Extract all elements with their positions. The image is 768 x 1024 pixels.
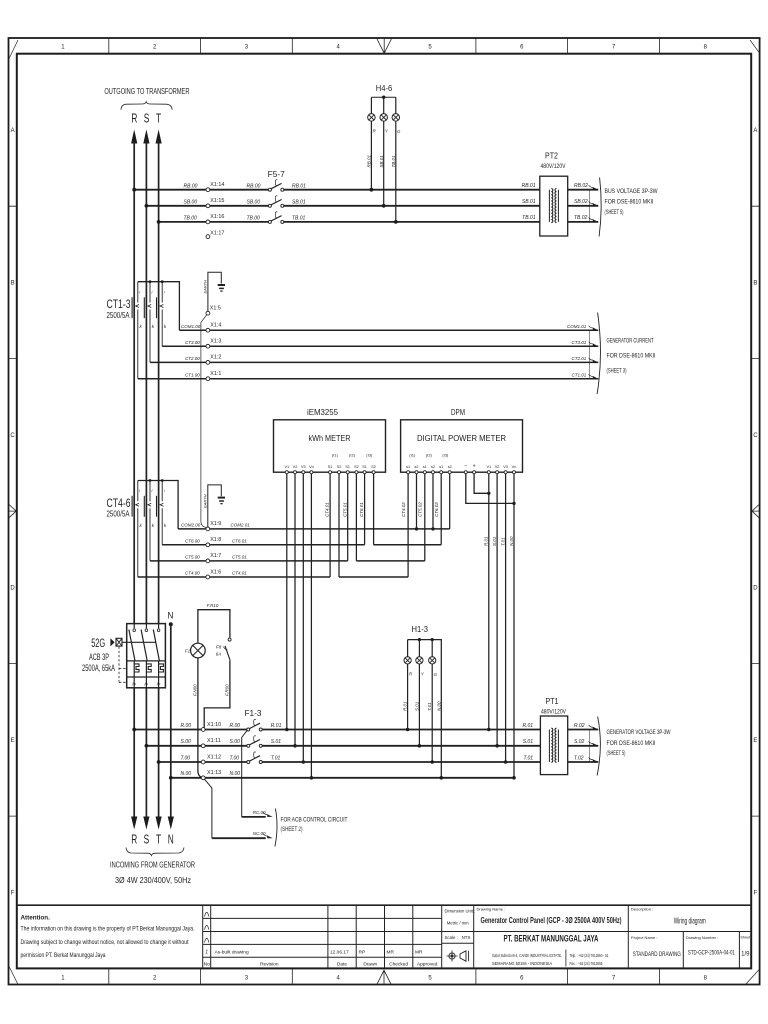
wire: DPM aux plus link xyxy=(474,474,490,495)
wire: CT4-6 common header xyxy=(138,479,178,529)
svg-text:R.02: R.02 xyxy=(574,723,585,729)
svg-text:X1:1: X1:1 xyxy=(210,371,221,377)
wire: DPM V1 to bus R.01 (R.01) xyxy=(484,474,491,732)
current transformer CT3 (phase T) xyxy=(157,282,167,347)
svg-text:Project Name :: Project Name : xyxy=(631,935,657,940)
svg-text:DPM: DPM xyxy=(451,408,465,417)
svg-text:PT. BERKAT MANUNGGAL JAYA: PT. BERKAT MANUNGGAL JAYA xyxy=(504,933,599,943)
svg-text:T.02: T.02 xyxy=(574,755,584,761)
svg-text:T.00: T.00 xyxy=(230,755,240,761)
svg-text:COM2.01: COM2.01 xyxy=(231,523,251,528)
svg-text:480V/120V: 480V/120V xyxy=(541,164,566,170)
svg-text:Description :: Description : xyxy=(631,907,653,912)
svg-text:1: 1 xyxy=(205,949,208,955)
fuse-switch F2 xyxy=(247,736,262,748)
svg-text:(I2): (I2) xyxy=(426,452,433,457)
svg-text:S1: S1 xyxy=(345,465,350,469)
breaker pole S xyxy=(141,624,147,688)
svg-text:CT6.01: CT6.01 xyxy=(232,539,247,544)
svg-text:EARTH: EARTH xyxy=(202,494,207,508)
svg-text:OUTGOING TO TRANSFORMER: OUTGOING TO TRANSFORMER xyxy=(104,87,189,96)
svg-text:(I1): (I1) xyxy=(332,452,339,457)
svg-text:SB.01: SB.01 xyxy=(292,200,306,206)
circuit breaker 52G ACB 3P 2500A 65kA xyxy=(110,624,165,688)
wire: kWh V2 to bus S.01 xyxy=(293,474,297,748)
svg-text:F5-7: F5-7 xyxy=(268,170,285,179)
svg-text:CT1.01: CT1.01 xyxy=(572,372,587,377)
svg-text:RB.01: RB.01 xyxy=(522,183,536,189)
wire: CT6.00 / CT6.01 row xyxy=(162,539,364,545)
svg-text:CT5.02: CT5.02 xyxy=(418,502,423,517)
svg-text:EARTH: EARTH xyxy=(203,280,208,294)
svg-text:X1:2: X1:2 xyxy=(210,355,221,361)
svg-text:S.02: S.02 xyxy=(574,739,585,745)
node: FOR ACB CONTROL CIRCUIT note xyxy=(275,809,348,847)
terminal X1:10 xyxy=(201,728,205,732)
wire: incoming arrow N xyxy=(168,817,174,830)
svg-text:X1:6: X1:6 xyxy=(210,569,221,575)
lamp F1 xyxy=(185,643,205,658)
terminal X1:5 xyxy=(206,305,221,315)
svg-text:(I1): (I1) xyxy=(409,452,416,457)
wire: bus SB.00/SB.01 xyxy=(145,200,540,208)
projection symbol xyxy=(447,951,469,962)
wire: bus S.00/S.01 xyxy=(145,738,541,747)
svg-text:I>: I> xyxy=(157,681,161,686)
svg-text:X1:17: X1:17 xyxy=(210,231,224,237)
wire: H4-6 star point xyxy=(371,96,395,99)
svg-text:STD-GCP-2500A-04-01: STD-GCP-2500A-04-01 xyxy=(688,950,735,957)
wire: kWh V3 to bus T.01 xyxy=(302,474,306,764)
terminal X1:16 xyxy=(206,214,224,224)
svg-text:V3: V3 xyxy=(503,465,508,469)
svg-text:F: F xyxy=(754,890,758,896)
svg-text:(SHEET 2): (SHEET 2) xyxy=(281,827,303,833)
svg-text:FOR DSE-8610 MKII: FOR DSE-8610 MKII xyxy=(607,740,656,747)
svg-text:F.R00: F.R00 xyxy=(225,684,230,696)
svg-text:CT4.01: CT4.01 xyxy=(325,502,330,517)
svg-text:R: R xyxy=(131,112,137,126)
fuse F8 circuit: wire F.R10 xyxy=(198,603,230,643)
sheet number xyxy=(740,936,751,958)
svg-text:CT5.01: CT5.01 xyxy=(342,502,347,517)
svg-text:s2: s2 xyxy=(414,465,418,469)
earth connection at X1:5 xyxy=(203,272,226,311)
svg-text:(I3): (I3) xyxy=(366,452,373,457)
svg-text:RB.01: RB.01 xyxy=(292,183,306,189)
wire: phase T vertical with outgoing arrow xyxy=(156,130,162,818)
svg-text:E: E xyxy=(11,738,15,744)
svg-text:(SHEET 5): (SHEET 5) xyxy=(605,209,624,216)
svg-text:I>: I> xyxy=(144,681,148,686)
svg-text:Metric / mm: Metric / mm xyxy=(447,921,469,926)
svg-text:Attention.: Attention. xyxy=(21,915,51,922)
terminal X1:13 xyxy=(201,776,205,780)
svg-text:TB.00: TB.00 xyxy=(247,216,261,222)
svg-text:MR: MR xyxy=(415,949,423,955)
wire: PT2 output SB.02 with arrow xyxy=(568,199,599,206)
terminal X1:12 xyxy=(201,760,205,764)
fuse-switch F7 xyxy=(268,212,283,224)
svg-text:T.01: T.01 xyxy=(271,755,281,761)
svg-text:V1: V1 xyxy=(284,465,289,469)
terminal X1:8 xyxy=(206,537,221,547)
svg-text:s1: s1 xyxy=(439,465,443,469)
svg-text:T.01: T.01 xyxy=(427,702,432,711)
svg-text:T.00: T.00 xyxy=(181,755,191,761)
svg-text:A: A xyxy=(753,128,757,134)
svg-text:COM2.00: COM2.00 xyxy=(181,523,201,528)
wire: incoming arrow S xyxy=(143,817,149,830)
svg-text:Drawing Name :: Drawing Name : xyxy=(477,907,506,912)
svg-text:D: D xyxy=(10,585,15,591)
svg-text:X1:9: X1:9 xyxy=(210,521,221,527)
lamp H3 (G) xyxy=(427,640,438,764)
svg-text:S: S xyxy=(144,833,150,847)
svg-text:E: E xyxy=(753,738,757,744)
svg-text:12.06.17: 12.06.17 xyxy=(330,949,349,955)
terminal X1:3 xyxy=(206,338,221,348)
svg-text:N.00: N.00 xyxy=(181,771,192,777)
svg-text:2500A, 65kA: 2500A, 65kA xyxy=(82,663,115,673)
svg-text:R.00: R.00 xyxy=(230,723,241,729)
svg-text:R: R xyxy=(131,833,137,847)
svg-text:TB.00: TB.00 xyxy=(184,216,198,222)
terminal X1:15 xyxy=(206,198,224,208)
svg-text:l: l xyxy=(139,489,140,493)
svg-text:X1:16: X1:16 xyxy=(210,214,224,220)
wire: PT1 output S.02 with arrow xyxy=(568,739,599,746)
attention note xyxy=(21,915,195,959)
wire: DPM V3 to bus T.01 (T.01) xyxy=(500,474,507,764)
svg-text:DIGITAL POWER METER: DIGITAL POWER METER xyxy=(417,434,506,443)
title block xyxy=(17,905,751,968)
svg-text:X1:7: X1:7 xyxy=(210,553,221,559)
svg-text:Fax. : +62 (24) 7612555: Fax. : +62 (24) 7612555 xyxy=(570,961,603,966)
svg-text:TB.01: TB.01 xyxy=(522,215,536,221)
kWh meter iEM3255 xyxy=(274,408,386,474)
svg-text:H4-6: H4-6 xyxy=(376,84,393,93)
svg-text:permission PT. Berkat Manungga: permission PT. Berkat Manunggal Jaya xyxy=(21,952,106,959)
svg-text:N.00: N.00 xyxy=(509,536,514,546)
svg-text:ACB 3P: ACB 3P xyxy=(89,652,109,662)
svg-text:2500/5A: 2500/5A xyxy=(107,310,130,320)
svg-text:Gatot Subroto B-4, CANDI INDUS: Gatot Subroto B-4, CANDI INDUSTRIAL ESTA… xyxy=(492,953,562,958)
svg-text:S.01: S.01 xyxy=(523,739,534,745)
svg-text:T: T xyxy=(156,833,161,847)
fuse-switch F6 xyxy=(268,196,283,208)
wire: DPM Vn to bus N.00 (N.00) xyxy=(509,474,516,780)
svg-text:Checked: Checked xyxy=(389,961,408,967)
svg-text:CT2.00: CT2.00 xyxy=(185,356,200,361)
wire: bus T.00/T.01 xyxy=(157,754,541,763)
svg-text:V2: V2 xyxy=(495,465,500,469)
wire: X1:5 to X1:9 earth rail xyxy=(201,315,207,528)
svg-text:l: l xyxy=(139,290,140,294)
fuse-switch F3 xyxy=(247,752,262,764)
svg-text:S.01: S.01 xyxy=(414,701,419,711)
svg-text:R.00: R.00 xyxy=(181,723,192,729)
drawing name xyxy=(477,907,622,926)
label CT1-3 2500/5A xyxy=(107,299,131,320)
svg-text:F1: F1 xyxy=(185,648,191,653)
svg-text:T.01: T.01 xyxy=(500,537,505,546)
label 52G ACB 3P 2500A 65kA xyxy=(82,638,115,673)
svg-text:F8: F8 xyxy=(216,645,222,650)
svg-text:Sheet: Sheet xyxy=(740,936,751,940)
svg-text:X1:11: X1:11 xyxy=(207,738,221,744)
svg-text:INCOMING FROM GENERATOR: INCOMING FROM GENERATOR xyxy=(110,860,195,869)
svg-text:3Ø 4W 230/400V, 50Hz: 3Ø 4W 230/400V, 50Hz xyxy=(115,876,191,885)
lamp H1 (R) xyxy=(403,640,414,732)
svg-text:COM1.01: COM1.01 xyxy=(567,324,587,329)
wire: incoming arrow R xyxy=(131,817,137,830)
svg-text:Drawing subject to change with: Drawing subject to change without notice… xyxy=(21,939,189,946)
terminal X1:2 xyxy=(206,355,221,365)
svg-text:CT2.01: CT2.01 xyxy=(572,356,587,361)
terminal X1:17 (spare) xyxy=(206,231,224,239)
svg-text:F.N00: F.N00 xyxy=(193,684,198,696)
svg-text:G: G xyxy=(397,129,401,134)
svg-text:S: S xyxy=(144,112,150,126)
label CT4-6 2500/5A xyxy=(107,498,131,519)
node: OUTGOING TO TRANSFORMER heading xyxy=(104,87,189,126)
svg-text:52G: 52G xyxy=(91,638,105,650)
wire: CT6.02 link row xyxy=(374,544,442,546)
svg-text:I>: I> xyxy=(132,681,136,686)
svg-text:S1: S1 xyxy=(362,465,367,469)
svg-text:MR: MR xyxy=(387,949,395,955)
terminal X1:7 xyxy=(206,553,221,563)
svg-text:V1: V1 xyxy=(486,465,491,469)
wire: phase S vertical with outgoing arrow xyxy=(143,130,149,818)
node: GENERATOR CURRENT destination note xyxy=(567,313,656,395)
terminal X1:9 xyxy=(206,521,221,531)
svg-text:Revision: Revision xyxy=(260,961,279,967)
svg-text:R.01: R.01 xyxy=(484,536,489,546)
wire F.N00 from lamp to X1:13 xyxy=(193,658,202,778)
revision table xyxy=(204,912,438,967)
svg-text:(I2): (I2) xyxy=(349,452,356,457)
svg-text:TB.01: TB.01 xyxy=(292,216,306,222)
svg-text:S.00: S.00 xyxy=(181,739,192,745)
wire: bus N.00 xyxy=(169,770,514,779)
svg-text:X1:8: X1:8 xyxy=(210,537,221,543)
svg-text:SB.02: SB.02 xyxy=(574,199,588,205)
wire: kWh S1/S2 risers xyxy=(330,474,374,577)
wire: CT1-3 common header xyxy=(138,280,180,330)
wire: CT3.00 row xyxy=(162,340,583,346)
svg-text:s1: s1 xyxy=(406,465,410,469)
svg-text:RB.01: RB.01 xyxy=(367,154,372,167)
breaker pole R xyxy=(129,624,135,688)
wire: bus RB.00/RB.01 xyxy=(132,183,540,191)
fuse F8 6A xyxy=(216,638,231,661)
svg-text:(SHEET 5): (SHEET 5) xyxy=(607,750,626,757)
svg-text:6A: 6A xyxy=(216,652,222,657)
svg-text:s2: s2 xyxy=(431,465,435,469)
svg-text:Vn: Vn xyxy=(309,465,314,469)
svg-text:kWh METER: kWh METER xyxy=(309,433,351,443)
wire: PT1 output R.02 with arrow xyxy=(568,723,599,730)
svg-text:F.R10: F.R10 xyxy=(207,603,219,608)
lamp H2 (Y) xyxy=(414,640,425,748)
svg-text:S.01: S.01 xyxy=(492,536,497,546)
svg-text:Telp. : +62 (24) 7612550 - 51: Telp. : +62 (24) 7612550 - 51 xyxy=(570,953,609,958)
svg-text:Scale :: Scale : xyxy=(445,935,458,940)
wire: DPM s1/s2 risers xyxy=(408,474,450,577)
svg-text:X1:3: X1:3 xyxy=(210,338,221,344)
svg-text:Generator Control Panel (GCP -: Generator Control Panel (GCP - 3Ø 2500A … xyxy=(481,915,622,925)
wire RC.00 to ACB control xyxy=(242,731,273,817)
project name xyxy=(631,935,681,958)
svg-text:SB.00: SB.00 xyxy=(184,200,198,206)
svg-text:Wiring diagram: Wiring diagram xyxy=(674,916,706,925)
svg-text:CT5.01: CT5.01 xyxy=(232,555,247,560)
svg-text:R.01: R.01 xyxy=(522,723,533,729)
svg-text:Dimension Unit :: Dimension Unit : xyxy=(445,909,476,914)
terminal X1:1 xyxy=(206,371,221,381)
svg-text:NTS: NTS xyxy=(462,935,471,940)
svg-text:X1:4: X1:4 xyxy=(210,322,221,328)
svg-text:iEM3255: iEM3255 xyxy=(307,408,338,417)
wire: PT2 output TB.02 with arrow xyxy=(568,215,599,222)
svg-text:S2: S2 xyxy=(337,465,342,469)
svg-text:V3: V3 xyxy=(301,465,306,469)
breaker pole T xyxy=(153,624,159,688)
svg-text:F: F xyxy=(11,890,15,896)
svg-text:CT4.00: CT4.00 xyxy=(185,571,200,576)
svg-text:(I3): (I3) xyxy=(442,452,449,457)
svg-text:A: A xyxy=(11,128,15,134)
company name xyxy=(492,933,609,966)
current transformer CT5 (phase S) xyxy=(144,481,154,561)
current transformer CT4 (phase R) xyxy=(132,481,142,578)
svg-text:S1: S1 xyxy=(328,465,333,469)
svg-text:SB.01: SB.01 xyxy=(379,155,384,168)
svg-text:CT5.00: CT5.00 xyxy=(185,555,200,560)
svg-text:Drawn: Drawn xyxy=(363,961,377,967)
svg-text:T: T xyxy=(156,112,161,126)
wire: H1-3 common to N.00 xyxy=(408,638,444,780)
svg-text:C: C xyxy=(10,433,15,439)
svg-text:CT6.02: CT6.02 xyxy=(434,502,439,517)
wire: CT4.02 link row xyxy=(339,576,408,578)
node: GENERATOR VOLTAGE destination note xyxy=(589,717,670,776)
svg-text:Approved: Approved xyxy=(417,961,438,967)
svg-text:X1:5: X1:5 xyxy=(210,305,221,311)
svg-text:RB.02: RB.02 xyxy=(574,183,588,189)
digital power meter DPM xyxy=(401,408,523,474)
svg-text:RC.00: RC.00 xyxy=(253,810,266,815)
current transformer CT2 (phase S) xyxy=(144,282,154,363)
svg-text:RP: RP xyxy=(359,949,366,955)
description xyxy=(631,907,706,926)
svg-text:−: − xyxy=(464,464,467,470)
svg-text:BUS VOLTAGE 3P-3W: BUS VOLTAGE 3P-3W xyxy=(605,188,658,195)
svg-text:CT4.02: CT4.02 xyxy=(401,502,406,517)
svg-text:X1:12: X1:12 xyxy=(207,754,221,760)
svg-text:S2: S2 xyxy=(371,465,376,469)
svg-text:TB.01: TB.01 xyxy=(391,155,396,168)
svg-text:F1-3: F1-3 xyxy=(245,709,262,718)
svg-text:CT6.01: CT6.01 xyxy=(359,502,364,517)
svg-text:FOR DSE-8610 MKII: FOR DSE-8610 MKII xyxy=(605,198,654,205)
svg-text:RB.00: RB.00 xyxy=(184,183,198,189)
wire F.R00 from F8 to X1:10 xyxy=(204,661,230,728)
wire: phase R vertical with outgoing arrow xyxy=(131,130,137,818)
svg-text:H1-3: H1-3 xyxy=(412,625,429,634)
svg-text:TB.02: TB.02 xyxy=(574,215,588,221)
svg-text:CT3.00: CT3.00 xyxy=(185,340,200,345)
svg-text:CT4.01: CT4.01 xyxy=(232,571,247,576)
svg-text:GENERATOR CURRENT: GENERATOR CURRENT xyxy=(607,337,654,344)
wire: kWh V1 to bus R.01 xyxy=(285,474,289,732)
terminal X1:14 xyxy=(206,182,224,192)
svg-text:N: N xyxy=(168,833,174,847)
wire: COM1.00 row xyxy=(179,324,583,330)
node: BUS VOLTAGE destination note xyxy=(589,178,657,237)
wire: PT1 output T.02 with arrow xyxy=(568,755,599,762)
svg-text:PT2: PT2 xyxy=(545,150,558,160)
terminal X1:4 xyxy=(206,322,221,332)
svg-text:Drawing Number :: Drawing Number : xyxy=(686,935,718,940)
svg-text:FOR ACB CONTROL CIRCUIT: FOR ACB CONTROL CIRCUIT xyxy=(281,818,348,824)
wire: DPM aux minus link xyxy=(466,474,516,505)
wire: CT5.00 / CT5.01 row xyxy=(150,555,348,561)
svg-text:FOR DSE-8610 MKII: FOR DSE-8610 MKII xyxy=(607,352,656,359)
wire: incoming arrow T xyxy=(156,817,162,830)
svg-text:CT1.00: CT1.00 xyxy=(185,372,200,377)
current transformer CT6 (phase T) xyxy=(157,481,167,545)
wire: PT2 output RB.02 with arrow xyxy=(568,183,599,190)
wire: COM2.00 / COM2.01 row xyxy=(178,523,450,531)
svg-text:The information on this drawin: The information on this drawing is the p… xyxy=(21,926,195,933)
svg-text:S.00: S.00 xyxy=(230,739,241,745)
transformer PT2 480V/120V xyxy=(522,150,568,236)
svg-text:S2: S2 xyxy=(354,465,359,469)
earth connection at X1:9 xyxy=(202,485,225,527)
svg-text:s2: s2 xyxy=(448,465,452,469)
svg-text:Date: Date xyxy=(337,961,347,967)
svg-text:RB.00: RB.00 xyxy=(247,183,261,189)
wire: bus TB.00/TB.01 xyxy=(157,216,540,224)
svg-text:C: C xyxy=(753,433,758,439)
svg-text:2500/5A: 2500/5A xyxy=(107,509,130,519)
svg-text:+: + xyxy=(473,464,476,470)
svg-text:1/9: 1/9 xyxy=(741,951,750,957)
dimension unit / scale box xyxy=(445,909,476,941)
svg-text:480V/120V: 480V/120V xyxy=(541,709,566,715)
node N (neutral) xyxy=(168,611,174,817)
svg-text:(SHEET 3): (SHEET 3) xyxy=(607,367,627,374)
svg-text:As-built drawing: As-built drawing xyxy=(215,949,249,955)
svg-text:Vn: Vn xyxy=(512,465,517,469)
terminal X1:11 xyxy=(201,744,205,748)
svg-text:CT3.01: CT3.01 xyxy=(572,340,587,345)
breaker operator xyxy=(110,638,114,646)
svg-text:B: B xyxy=(11,280,15,286)
fuse-switch F1 xyxy=(247,719,262,731)
svg-text:No: No xyxy=(204,961,210,967)
svg-text:N.00: N.00 xyxy=(436,701,441,711)
svg-text:SEMARANG 50184 - INDONESIA: SEMARANG 50184 - INDONESIA xyxy=(492,961,552,966)
svg-text:X1:13: X1:13 xyxy=(207,770,221,776)
svg-text:N: N xyxy=(168,611,174,622)
wire: CT2.00 row xyxy=(150,356,583,362)
svg-text:G: G xyxy=(434,672,438,677)
wire: CT4.00 / CT4.01 row xyxy=(138,571,330,577)
